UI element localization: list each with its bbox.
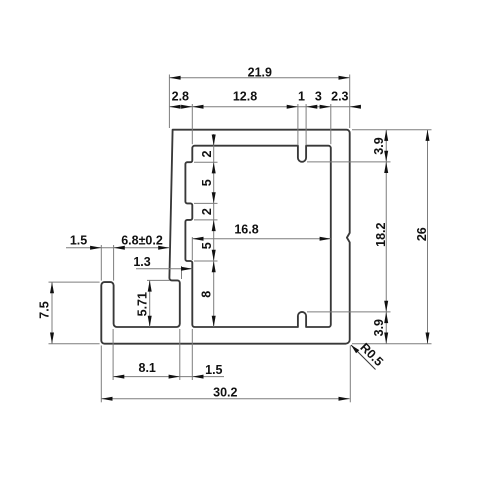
svg-text:1.5: 1.5: [205, 363, 222, 377]
svg-text:1: 1: [298, 90, 305, 104]
svg-text:5: 5: [200, 242, 214, 249]
svg-text:5: 5: [200, 179, 214, 186]
svg-text:2: 2: [200, 150, 214, 157]
svg-text:2.3: 2.3: [331, 90, 348, 104]
svg-text:26: 26: [415, 227, 429, 241]
svg-text:7.5: 7.5: [37, 301, 51, 318]
svg-text:8.1: 8.1: [139, 361, 156, 375]
svg-text:21.9: 21.9: [248, 66, 272, 80]
svg-text:12.8: 12.8: [233, 90, 257, 104]
svg-text:3.9: 3.9: [372, 319, 386, 336]
svg-text:3.9: 3.9: [372, 137, 386, 154]
svg-text:1.5: 1.5: [70, 233, 87, 247]
svg-text:1.3: 1.3: [133, 255, 150, 269]
svg-text:5.71: 5.71: [136, 292, 150, 316]
svg-text:3: 3: [315, 90, 322, 104]
svg-text:2.8: 2.8: [172, 90, 189, 104]
svg-text:2: 2: [200, 208, 214, 215]
svg-text:16.8: 16.8: [234, 222, 258, 236]
svg-text:30.2: 30.2: [213, 385, 237, 399]
svg-text:18.2: 18.2: [374, 222, 388, 246]
svg-text:6.8±0.2: 6.8±0.2: [121, 233, 163, 247]
svg-text:8: 8: [199, 291, 213, 298]
